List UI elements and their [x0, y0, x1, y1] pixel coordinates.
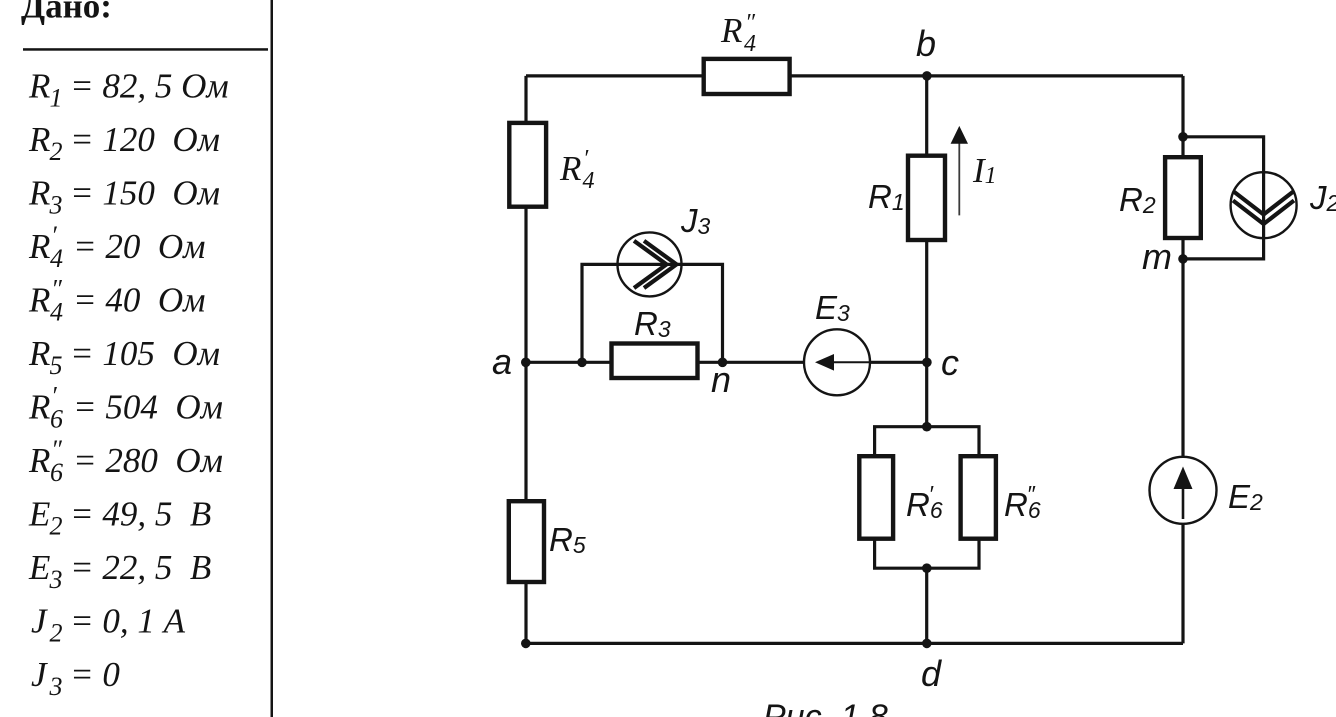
wire top (corner to corner through R4'' and node b) [526, 74, 1183, 77]
svg-text:R: R [28, 174, 50, 213]
svg-text:6: 6 [50, 405, 63, 434]
node b [922, 71, 932, 81]
junction left of R3 [577, 358, 587, 368]
svg-text:2: 2 [50, 137, 63, 166]
svg-text:= 150 Ом: = 150 Ом [70, 174, 220, 213]
node n [718, 358, 728, 368]
svg-text:R: R [720, 11, 742, 50]
svg-text:4: 4 [744, 31, 756, 57]
svg-text:d: d [921, 653, 942, 694]
svg-text:Рис. 1.8: Рис. 1.8 [763, 698, 888, 717]
node a [521, 358, 531, 368]
svg-text:R: R [28, 281, 50, 320]
panel vertical divider [271, 0, 274, 717]
node d [922, 639, 932, 649]
svg-text:Дано:: Дано: [21, 0, 112, 26]
svg-text:R: R [559, 149, 581, 188]
resistor R6' [859, 456, 893, 539]
svg-text:b: b [916, 23, 936, 64]
source E3 arrow (left) [834, 361, 871, 363]
svg-text:J: J [31, 655, 48, 694]
junction parallel bottom [922, 563, 932, 573]
wire J3 bypass loop [582, 264, 723, 362]
svg-text:R: R [28, 67, 50, 106]
svg-text:c: c [941, 342, 959, 383]
source E2 circle [1150, 457, 1217, 524]
svg-text:= 82, 5 Ом: = 82, 5 Ом [70, 67, 229, 106]
resistor R3 [612, 344, 698, 379]
svg-text:E: E [28, 548, 50, 587]
source E2 arrow (up) [1182, 487, 1185, 519]
svg-text:n: n [711, 359, 731, 400]
svg-text:5: 5 [50, 351, 63, 380]
svg-text:a: a [492, 341, 512, 382]
wire a-n-c [526, 361, 927, 364]
wire middle b-c [925, 76, 928, 427]
source J3 chevrons [634, 241, 667, 288]
svg-text:m: m [1142, 236, 1172, 277]
source J2 circle [1231, 172, 1297, 238]
heading underline [23, 48, 268, 51]
resistor R4'' [704, 59, 790, 94]
source E3 circle [804, 329, 870, 395]
svg-text:3: 3 [49, 191, 63, 220]
junction R2 top [1178, 132, 1188, 142]
svg-text:= 49, 5 В: = 49, 5 В [70, 495, 211, 534]
svg-text:6: 6 [50, 458, 63, 487]
svg-text:= 22, 5 В: = 22, 5 В [70, 548, 211, 587]
svg-text:= 40 Ом: = 40 Ом [73, 281, 205, 320]
wire R6 parallel frame [875, 427, 979, 569]
junction parallel top [922, 422, 932, 432]
wire bottom [526, 642, 1183, 645]
wire right (through R2 and E2) [1181, 76, 1184, 644]
source J3 circle [618, 232, 682, 296]
junction bottom left [521, 639, 531, 649]
resistor R1 [908, 156, 945, 240]
svg-text:3: 3 [49, 672, 63, 701]
resistor R4' [509, 123, 546, 207]
svg-text:R: R [28, 388, 50, 427]
svg-text:R: R [28, 227, 50, 266]
wire J2 branch loop [1183, 137, 1264, 259]
svg-text:= 280 Ом: = 280 Ом [73, 441, 223, 480]
svg-text:2: 2 [50, 512, 63, 541]
svg-text:= 0, 1 А: = 0, 1 А [70, 602, 186, 641]
svg-text:4: 4 [50, 244, 63, 273]
resistor R6'' [961, 456, 996, 539]
svg-text:E: E [28, 495, 50, 534]
svg-text:2: 2 [50, 619, 63, 648]
node m [1178, 254, 1188, 264]
svg-text:4: 4 [50, 298, 63, 327]
svg-text:= 504 Ом: = 504 Ом [73, 388, 223, 427]
node c [922, 358, 932, 368]
svg-text:= 120 Ом: = 120 Ом [70, 120, 220, 159]
current arrow I1 [958, 142, 960, 215]
resistor R5 [509, 501, 544, 582]
source J2 chevrons [1233, 191, 1294, 215]
svg-text:4: 4 [583, 168, 595, 194]
svg-text:R: R [28, 334, 50, 373]
resistor R2 [1165, 157, 1201, 238]
wire left (through R4' , node a, R5) [524, 76, 527, 644]
wire middle parallel-bottom to d [925, 568, 928, 643]
svg-text:= 105 Ом: = 105 Ом [70, 334, 220, 373]
svg-text:3: 3 [49, 565, 63, 594]
svg-text:= 0: = 0 [70, 655, 120, 694]
svg-text:J: J [31, 602, 48, 641]
svg-text:= 20 Ом: = 20 Ом [73, 227, 205, 266]
svg-text:1: 1 [50, 84, 63, 113]
svg-text:R: R [28, 441, 50, 480]
svg-text:R: R [28, 120, 50, 159]
